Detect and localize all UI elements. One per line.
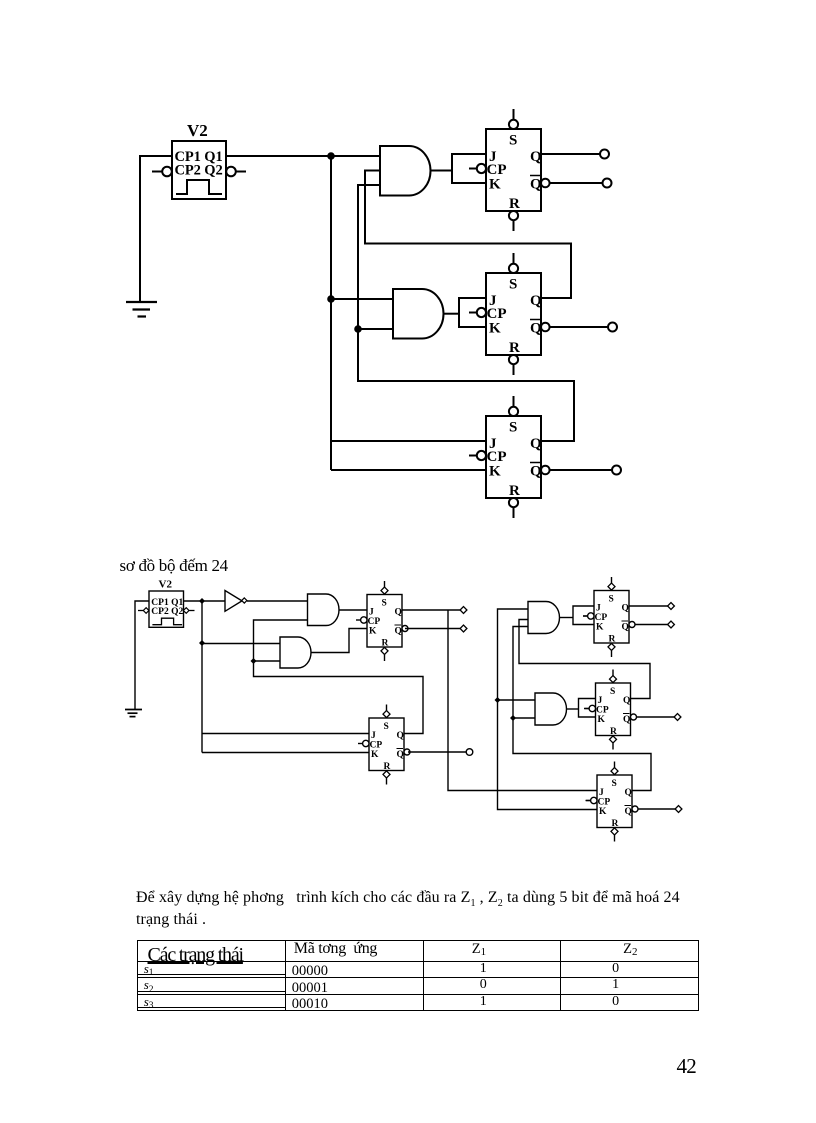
svg-text:Q: Q bbox=[397, 750, 404, 760]
clock source V2b CP2 diamond pin bbox=[138, 608, 149, 614]
svg-text:Q: Q bbox=[622, 623, 629, 633]
flip-flop U5b pin R diamond bbox=[610, 736, 617, 750]
state table bbox=[137, 940, 699, 1012]
wire Q3 to AND2 input2 bbox=[358, 328, 393, 330]
clock source V2 Q2 bubble pin bbox=[226, 167, 246, 177]
AND gate U1 (3-input) bbox=[380, 146, 431, 196]
flip-flop U5 (stage3) box bbox=[486, 416, 541, 498]
wire FF1.Qbar to terminal bbox=[550, 182, 602, 184]
flip-flop U2 (stage1) pin S circle bbox=[509, 109, 518, 129]
svg-text:CP: CP bbox=[368, 617, 381, 627]
flip-flop U5b CP bubble bbox=[585, 705, 596, 711]
svg-text:Q: Q bbox=[623, 696, 630, 706]
flip-flop U5b Qbar bubble bbox=[631, 714, 637, 720]
flip-flop U4 (stage2) box bbox=[486, 273, 541, 355]
svg-text:Q: Q bbox=[530, 149, 542, 165]
terminal FF6.Qbar diamond bbox=[675, 806, 682, 813]
flip-flop U2 (stage1) box bbox=[486, 129, 541, 211]
AND gate D (2-input) bbox=[535, 693, 567, 725]
wire FF4.Qbar to terminal bbox=[635, 624, 668, 626]
flip-flop U6b pin R diamond bbox=[611, 828, 618, 842]
wire FF1b.Q feedback to FF6.J bbox=[448, 610, 597, 791]
flip-flop U2 (stage1) Qbar bubble bbox=[541, 179, 550, 188]
svg-text:K: K bbox=[371, 750, 379, 760]
svg-text:K: K bbox=[599, 807, 607, 817]
flip-flop U1b (stage1) pin S diamond bbox=[381, 581, 388, 594]
svg-text:K: K bbox=[596, 623, 604, 633]
flip-flop U1b (stage1) Qbar bubble bbox=[402, 626, 408, 632]
wire gateD input2 bbox=[513, 717, 535, 719]
wire gateD output to FF5 J/K bracket bbox=[567, 699, 596, 718]
wire FF2 CP stub bbox=[469, 312, 477, 314]
flip-flop U4b box bbox=[594, 591, 629, 644]
wire gateD input1 bbox=[498, 699, 536, 701]
flip-flop U5b pin S diamond bbox=[610, 670, 617, 683]
AND gate B bbox=[280, 637, 311, 668]
svg-text:R: R bbox=[384, 762, 391, 772]
flip-flop U3b (stage3) labels bbox=[370, 722, 404, 772]
svg-text:Q: Q bbox=[530, 436, 542, 452]
clock source V2b waveform bbox=[152, 618, 182, 625]
terminal FF2.Qbar bbox=[608, 323, 617, 332]
wire gateA output to FF1b.J bbox=[339, 609, 367, 611]
wire Q3b feedback to gateA input2 / gateB input2 bbox=[254, 620, 424, 734]
clock source V2b Q2 diamond pin bbox=[183, 608, 194, 614]
svg-text:S: S bbox=[610, 687, 615, 697]
flip-flop U4b pin S diamond bbox=[608, 577, 615, 590]
flip-flop U2 (stage1) pin R circle bbox=[509, 211, 518, 231]
flip-flop U4 (stage2) CP bubble bbox=[469, 308, 486, 317]
wire net K6 to gateC input1 and gateD input1 and FF6.K bbox=[498, 609, 598, 810]
wire clock to AND2 input1 bbox=[331, 298, 393, 300]
wire V2b.Q1 to inverter bbox=[184, 600, 226, 602]
wire V2.Q1 to AND1 input 1 bbox=[226, 155, 380, 157]
terminal FF4.Q diamond bbox=[668, 603, 675, 610]
AND gate U3 (2-input) bbox=[393, 289, 444, 339]
svg-text:CP: CP bbox=[595, 613, 608, 623]
ground symbol b bbox=[125, 710, 142, 717]
flip-flop U6b pin S diamond bbox=[611, 762, 618, 775]
flip-flop U3b (stage3) CP bubble bbox=[358, 740, 369, 746]
wire clock bus b vertical bbox=[201, 601, 203, 753]
svg-text:K: K bbox=[489, 321, 501, 337]
junction node clock b bbox=[199, 598, 205, 604]
wire clock to FF3b.J bbox=[202, 733, 369, 735]
wire V2b.CP1 to ground bbox=[135, 601, 149, 709]
flip-flop U4b Qbar bubble bbox=[629, 622, 635, 628]
terminal FF1b.Qbar diamond bbox=[460, 625, 467, 632]
svg-text:S: S bbox=[509, 420, 517, 436]
terminal FF1.Q bbox=[600, 150, 609, 159]
flip-flop U5 (stage3) labels S J CP K Q Qbar R bbox=[487, 420, 543, 500]
terminal FF3.Qbar bbox=[612, 466, 621, 475]
wire CP1 to ground bbox=[140, 156, 172, 301]
svg-text:V2: V2 bbox=[159, 578, 173, 590]
svg-text:Q: Q bbox=[395, 608, 402, 618]
page number 42 bbox=[677, 1054, 696, 1079]
flip-flop U5 (stage3) CP bubble bbox=[469, 451, 486, 460]
svg-text:S: S bbox=[509, 133, 517, 149]
flip-flop U5b labels bbox=[596, 687, 630, 737]
wire Q3 feedback to AND1 input3 bbox=[358, 185, 574, 441]
wire FF6.Qbar to terminal bbox=[638, 808, 675, 810]
terminal FF3b.Qbar circle bbox=[466, 749, 473, 756]
flip-flop U5 (stage3) pin S circle bbox=[509, 396, 518, 416]
svg-text:K: K bbox=[598, 715, 606, 725]
junction node Q3b/gateB bbox=[251, 658, 257, 664]
clock source V2 waveform bbox=[176, 180, 222, 194]
flip-flop U4b labels bbox=[595, 595, 629, 645]
junction node Q3/AND2 input2 bbox=[354, 325, 362, 333]
svg-text:K: K bbox=[489, 177, 501, 193]
flip-flop U1b (stage1) pin R diamond bbox=[381, 647, 388, 661]
svg-text:Q: Q bbox=[530, 321, 542, 337]
svg-text:V2: V2 bbox=[187, 121, 208, 140]
junction node gateD input2 bbox=[510, 715, 516, 721]
AND gate A bbox=[308, 594, 340, 626]
paragraph text bbox=[136, 890, 736, 929]
ground symbol bbox=[126, 302, 157, 317]
svg-text:S: S bbox=[509, 277, 517, 293]
wire clock to FF3.J bbox=[331, 440, 486, 442]
clock source V2b pin labels bbox=[151, 598, 183, 617]
wire FF4 CP stub bbox=[583, 615, 588, 617]
flip-flop U6b box bbox=[597, 775, 632, 828]
svg-text:CP: CP bbox=[596, 706, 609, 716]
svg-text:CP2 Q2: CP2 Q2 bbox=[175, 163, 223, 179]
flip-flop U6b labels bbox=[598, 779, 632, 829]
flip-flop U4 (stage2) labels S J CP K Q Qbar R bbox=[487, 277, 543, 357]
svg-text:J: J bbox=[371, 731, 376, 741]
flip-flop U2 (stage1) CP bubble bbox=[469, 164, 486, 173]
flip-flop U6b Qbar bubble bbox=[632, 806, 638, 812]
svg-text:S: S bbox=[382, 599, 387, 609]
flip-flop U2 (stage1) labels S J CP K Q Qbar R bbox=[487, 133, 543, 213]
wire FF3 CP stub bbox=[469, 455, 477, 457]
wire FF1b.Q to terminal bbox=[402, 609, 460, 611]
junction node clock/AND2 bbox=[327, 295, 335, 303]
flip-flop U5 (stage3) Qbar bubble bbox=[541, 466, 550, 475]
wire FF5.Qbar to terminal bbox=[637, 716, 674, 718]
svg-text:S: S bbox=[609, 595, 614, 605]
clock source V2b box bbox=[149, 591, 184, 627]
flip-flop U4 (stage2) Qbar bubble bbox=[541, 323, 550, 332]
terminal FF5.Qbar diamond bbox=[674, 714, 681, 721]
svg-text:CP: CP bbox=[370, 741, 383, 751]
svg-text:Q: Q bbox=[530, 464, 542, 480]
svg-text:CP: CP bbox=[598, 798, 611, 808]
wire Q3b to gateB input2 bbox=[254, 660, 281, 662]
flip-flop U5 (stage3) pin R circle bbox=[509, 498, 518, 518]
svg-text:S: S bbox=[612, 779, 617, 789]
terminal FF1.Qbar bbox=[603, 179, 612, 188]
svg-text:Q: Q bbox=[625, 788, 632, 798]
flip-flop U1b (stage1) labels bbox=[368, 599, 402, 649]
AND gate C (3-input) bbox=[528, 602, 560, 634]
wire clock to gateB input1 bbox=[202, 643, 280, 645]
inverter NOT1 bbox=[225, 591, 247, 612]
flip-flop U3b (stage3) pin R diamond bbox=[383, 771, 390, 785]
svg-text:R: R bbox=[609, 635, 616, 645]
wire clock to FF3.K bbox=[331, 469, 486, 471]
svg-text:Q: Q bbox=[625, 807, 632, 817]
wire FF1.Q to terminal bbox=[541, 153, 600, 155]
svg-text:K: K bbox=[369, 627, 377, 637]
junction node clock/AND1 bbox=[327, 152, 335, 160]
wire FF4.Q to terminal bbox=[629, 605, 668, 607]
terminal FF1b.Q diamond bbox=[460, 607, 467, 614]
wire FF1 CP stub bbox=[469, 168, 477, 170]
svg-text:J: J bbox=[596, 604, 601, 614]
svg-text:R: R bbox=[382, 639, 389, 649]
svg-text:Q: Q bbox=[622, 604, 629, 614]
wire Q2 feedback to AND1 input2 bbox=[365, 171, 571, 299]
svg-text:Q: Q bbox=[530, 177, 542, 193]
terminal FF4.Qbar diamond bbox=[668, 621, 675, 628]
clock source V2 pin labels CP1 Q1 CP2 Q2 bbox=[175, 149, 223, 179]
svg-text:J: J bbox=[598, 696, 603, 706]
svg-text:J: J bbox=[599, 788, 604, 798]
wire FF1b.Qbar to terminal bbox=[405, 628, 460, 630]
svg-text:Q: Q bbox=[397, 731, 404, 741]
flip-flop U4b pin R diamond bbox=[608, 643, 615, 657]
wire AND2 output to FF2 J/K bracket bbox=[444, 298, 487, 327]
flip-flop U4b CP bubble bbox=[583, 613, 594, 619]
svg-text:K: K bbox=[489, 464, 501, 480]
junction node gateD input1 bbox=[495, 697, 501, 703]
wire Q5 feedback to gateC input2 bbox=[519, 620, 650, 699]
wire clock bus vertical bbox=[330, 156, 332, 470]
flip-flop U3b (stage3) Qbar bubble bbox=[404, 749, 410, 755]
svg-text:R: R bbox=[509, 483, 520, 499]
svg-text:Q: Q bbox=[530, 293, 542, 309]
svg-text:R: R bbox=[509, 196, 520, 212]
svg-text:R: R bbox=[509, 340, 520, 356]
wire FF2.Qbar to terminal bbox=[550, 326, 608, 328]
svg-text:Q: Q bbox=[623, 715, 630, 725]
clock source V2 box bbox=[172, 141, 226, 199]
svg-text:sơ đồ bộ đếm 24: sơ đồ bộ đếm 24 bbox=[120, 556, 229, 575]
flip-flop U1b (stage1) box bbox=[367, 595, 402, 648]
wire FF3b.Qbar to terminal bbox=[408, 751, 466, 753]
wire AND1 output to FF1 J/K bracket bbox=[431, 154, 487, 183]
svg-text:R: R bbox=[612, 819, 619, 829]
clock source V2 CP2 bubble pin bbox=[152, 167, 172, 177]
wire FF3.Qbar to terminal bbox=[550, 469, 612, 471]
wire clock to FF3b.K bbox=[202, 752, 369, 754]
wire gateC output to FF4 J/K bracket bbox=[560, 606, 595, 625]
wire gateB output to FF1b.K bbox=[311, 629, 367, 653]
flip-flop U5b box bbox=[596, 683, 631, 736]
wire FF6 CP stub bbox=[586, 800, 592, 802]
flip-flop U4 (stage2) pin R circle bbox=[509, 355, 518, 375]
flip-flop U1b (stage1) CP bubble bbox=[356, 617, 367, 623]
svg-text:S: S bbox=[384, 722, 389, 732]
svg-text:Q: Q bbox=[395, 627, 402, 637]
svg-text:J: J bbox=[369, 608, 374, 618]
flip-flop U3b (stage3) pin S diamond bbox=[383, 705, 390, 718]
wire Q6 feedback to gateC input3 and gateD input2 bbox=[513, 627, 651, 791]
flip-flop U3b (stage3) box bbox=[369, 718, 404, 771]
svg-text:R: R bbox=[610, 727, 617, 737]
table header Cac trang thai bbox=[148, 944, 243, 966]
flip-flop U4 (stage2) pin S circle bbox=[509, 253, 518, 273]
svg-text:CP2 Q2: CP2 Q2 bbox=[151, 607, 183, 617]
wire inverter to gate A bbox=[247, 600, 308, 602]
flip-flop U6b CP bubble bbox=[586, 797, 597, 803]
wire FF5 CP stub bbox=[584, 708, 589, 710]
junction node clock/gateB bbox=[199, 640, 205, 646]
